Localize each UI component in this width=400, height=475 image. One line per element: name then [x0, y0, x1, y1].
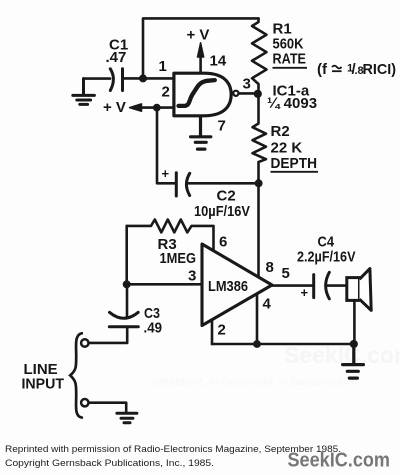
brace for line input: [70, 333, 82, 417]
svg-text:1MEG: 1MEG: [160, 250, 197, 267]
wire: lower jack to ground: [89, 403, 126, 413]
svg-text:22 K: 22 K: [271, 140, 303, 157]
svg-text:2: 2: [218, 322, 226, 339]
svg-text:5: 5: [282, 265, 290, 282]
NAND gate IC1-a body: [174, 73, 231, 116]
wire: feedback loop from pin1 node up and across to R1 top: [143, 18, 259, 78]
svg-text:(f: (f: [317, 61, 328, 78]
svg-text:6: 6: [219, 234, 227, 251]
wire: C3 to line input jack: [89, 327, 127, 343]
svg-text:R2: R2: [271, 123, 290, 140]
svg-text:Copyright Gernsback Publicatio: Copyright Gernsback Publications, Inc., …: [5, 458, 214, 469]
svg-text:C2: C2: [217, 188, 236, 205]
capacitor C3 plates: [109, 312, 138, 327]
svg-text:.47: .47: [106, 49, 127, 66]
wire: LM386 pin2 stub: [211, 320, 214, 344]
svg-text:.49: .49: [144, 320, 163, 337]
wire: pin2 from +V arrow to gate: [134, 106, 174, 109]
node: R3 / LM386 pin3 / C3: [123, 280, 131, 288]
wire: pin3 node down to C3: [126, 284, 129, 318]
resistor R1: [252, 18, 267, 93]
svg-text:¼ 4093: ¼ 4093: [267, 95, 317, 112]
ground (below gate pin 7): [191, 116, 211, 149]
wire: C2 right plate to node: [189, 182, 259, 185]
svg-text:10µF/16V: 10µF/16V: [194, 203, 250, 220]
wire: ground to C1 left plate: [84, 77, 111, 80]
speaker SPKR: [347, 278, 360, 301]
node: speaker / ground rail: [350, 340, 358, 348]
line input jack (top): [81, 339, 88, 346]
gate output bubble: [233, 91, 238, 96]
resistor R2: [253, 94, 267, 184]
ground (line input): [117, 413, 137, 423]
svg-text:DEPTH: DEPTH: [271, 155, 318, 172]
svg-text:+ V: + V: [187, 27, 210, 44]
+V arrow up (pin 14): [199, 55, 202, 73]
svg-text:14: 14: [210, 53, 227, 70]
svg-text:4: 4: [263, 296, 272, 313]
node: gate output / R1 / R2: [254, 90, 262, 98]
capacitor C2 plates: [176, 173, 189, 196]
svg-text:+ V: + V: [103, 99, 126, 116]
capacitor C4 plates: [314, 272, 330, 299]
wire: C1 to gate pin 1: [123, 77, 174, 80]
ground (top-left): [73, 79, 95, 105]
svg-text:3: 3: [188, 268, 196, 285]
wire: C4 to speaker: [328, 284, 347, 287]
svg-text:LM386: LM386: [208, 278, 248, 295]
node: R2 / C2 junction: [255, 179, 263, 187]
wire: R3 left down to pin3 node: [125, 226, 128, 284]
svg-text:RATE: RATE: [273, 51, 307, 68]
capacitor C1 plates: [110, 69, 122, 91]
wire: pin3 node to LM386 input: [127, 283, 202, 286]
wire: LM386 output to C4: [272, 284, 314, 287]
svg-text:7: 7: [218, 118, 226, 135]
wire: speaker down to bottom rail: [353, 300, 356, 344]
wire: pin2 node down to C2: [157, 108, 176, 184]
wire: gate output bubble to node: [239, 92, 258, 95]
op-amp LM386 triangle: [202, 244, 272, 326]
+V arrow left (pin 2 supply): [130, 104, 142, 111]
svg-text:DataSheet. in DataSheet. in: DataSheet. in DataSheet. in DataSheet. i…: [152, 376, 357, 388]
svg-text:2: 2: [162, 84, 170, 101]
wire: bottom rail: [212, 343, 354, 346]
node: pin1/C1 junction: [139, 74, 147, 82]
wire: LM386 pin4 stub: [256, 294, 259, 344]
svg-text:SeekIC.com: SeekIC.com: [288, 449, 391, 472]
svg-text:8: 8: [266, 259, 274, 276]
node: pin4 / bottom rail: [253, 340, 261, 348]
line input jack (bottom): [81, 399, 88, 406]
svg-text:+: +: [301, 285, 309, 300]
svg-text:+: +: [162, 166, 170, 181]
svg-text:1: 1: [159, 58, 167, 75]
ground (below speaker): [343, 344, 364, 378]
svg-text:2.2µF/16V: 2.2µF/16V: [297, 249, 356, 266]
svg-text:INPUT: INPUT: [22, 376, 65, 393]
node: pin2/C2 junction: [153, 104, 161, 112]
schmitt hysteresis symbol: [179, 80, 215, 106]
resistor R3: [127, 220, 214, 251]
svg-text:3: 3: [243, 76, 251, 93]
wire: C2 node down to LM386 pin 8: [257, 183, 260, 277]
svg-text:RICI): RICI): [363, 61, 397, 78]
